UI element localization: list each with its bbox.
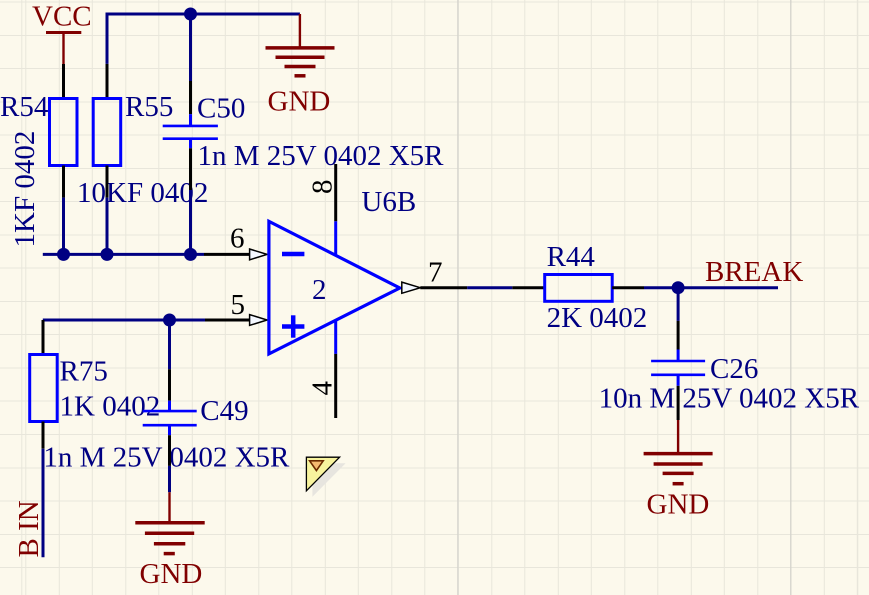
- resistor R44: [545, 275, 613, 302]
- pin C50 top: [189, 81, 192, 114]
- wire R44 to node BREAK: [644, 286, 678, 289]
- svg-text:C49: C49: [200, 395, 248, 427]
- svg-text:GND: GND: [140, 558, 203, 590]
- wire R54 to node: [62, 198, 65, 255]
- wire top bus: [107, 14, 300, 64]
- junction node R54: [57, 248, 70, 261]
- ground GND top: [266, 14, 335, 118]
- svg-text:R54: R54: [0, 91, 49, 123]
- svg-text:10n M 25V 0402 X5R: 10n M 25V 0402 X5R: [599, 383, 860, 415]
- wire R55 to node: [106, 198, 109, 255]
- junction node C50: [184, 248, 197, 261]
- wire C49 to GND: [168, 466, 171, 492]
- pin C49 bottom: [168, 435, 171, 466]
- pin C26 top: [677, 321, 680, 350]
- pin 6 of U6B: [204, 253, 250, 256]
- wire top to C50: [189, 14, 192, 81]
- svg-text:B IN: B IN: [13, 500, 45, 557]
- error marker inner triangle: [310, 461, 324, 471]
- wire node to pin6: [43, 253, 204, 256]
- svg-text:5: 5: [231, 289, 246, 321]
- ground GND bottom-left: [135, 492, 204, 590]
- svg-text:GND: GND: [268, 86, 331, 118]
- pin R44 left: [512, 286, 544, 289]
- op-amp U6B body: [269, 221, 400, 354]
- svg-text:4: 4: [307, 381, 339, 396]
- svg-text:2: 2: [312, 274, 327, 306]
- capacitor C50: [163, 114, 218, 148]
- svg-text:BREAK: BREAK: [705, 256, 803, 288]
- svg-text:C26: C26: [710, 353, 758, 385]
- pin R55 top: [106, 64, 109, 99]
- svg-text:6: 6: [230, 223, 245, 255]
- capacitor C26: [651, 350, 705, 386]
- junction node R55: [101, 248, 114, 261]
- svg-text:7: 7: [428, 256, 443, 288]
- error marker triangle: [306, 457, 339, 491]
- ground GND right: [644, 420, 713, 521]
- svg-text:1n M 25V 0402 X5R: 1n M 25V 0402 X5R: [198, 140, 445, 172]
- error marker shadow: [312, 463, 345, 497]
- svg-text:1n M 25V 0402 X5R: 1n M 25V 0402 X5R: [43, 442, 290, 474]
- resistor R54: [50, 99, 78, 166]
- junction node BREAK: [672, 281, 685, 294]
- capacitor C49: [143, 401, 197, 436]
- pin 4 of U6B: [334, 320, 337, 418]
- svg-text:1KF 0402: 1KF 0402: [9, 131, 41, 248]
- svg-text:8: 8: [307, 180, 339, 195]
- pin R44 right: [612, 286, 644, 289]
- power port VCC: [32, 1, 92, 65]
- pin R54 bottom: [62, 166, 65, 198]
- op-amp minus input mark: [282, 252, 304, 257]
- pin C50 bottom: [189, 148, 192, 190]
- pin R75 top: [42, 320, 45, 355]
- svg-text:GND: GND: [647, 489, 710, 521]
- svg-text:R75: R75: [60, 356, 108, 388]
- resistor R55: [93, 99, 121, 166]
- pin C26 bottom: [677, 386, 680, 420]
- pin C49 top: [168, 369, 171, 401]
- pin 8 of U6B: [334, 164, 337, 255]
- wire C50 to node: [189, 190, 192, 254]
- svg-text:R44: R44: [547, 241, 596, 273]
- op-amp plus input mark: [282, 315, 304, 337]
- svg-text:10KF 0402: 10KF 0402: [77, 177, 208, 209]
- wire pin7 to R44: [467, 286, 512, 289]
- wire BREAK stub: [678, 286, 778, 289]
- resistor R75: [30, 355, 58, 422]
- junction top: [184, 8, 197, 21]
- wire pin5 horizontal: [43, 319, 205, 322]
- wire node to C26: [677, 288, 680, 321]
- pin R75 bottom: [42, 422, 45, 449]
- wire R75 to B IN: [42, 449, 45, 558]
- svg-text:2K 0402: 2K 0402: [547, 302, 648, 334]
- wire VCC to R54: [62, 64, 65, 99]
- svg-text:C50: C50: [197, 93, 245, 125]
- pin 7 of U6B output arrow: [402, 282, 421, 293]
- pin R55 bottom: [106, 166, 109, 198]
- wire node to C49: [168, 320, 171, 369]
- svg-text:1K 0402: 1K 0402: [60, 391, 161, 423]
- svg-text:U6B: U6B: [361, 186, 416, 218]
- svg-text:VCC: VCC: [32, 1, 92, 33]
- pin 5 of U6B: [205, 319, 250, 322]
- junction node C49: [163, 314, 176, 327]
- svg-text:R55: R55: [125, 91, 173, 123]
